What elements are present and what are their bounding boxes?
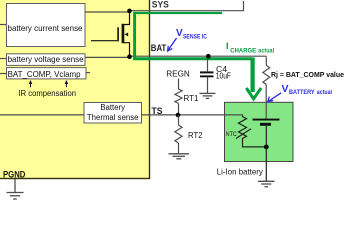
svg-text:RT1: RT1 xyxy=(184,93,199,103)
svg-text:Thermal sense: Thermal sense xyxy=(87,113,139,122)
thermistor NTC zigzag xyxy=(239,116,247,142)
ground RT2 xyxy=(169,154,190,159)
battery cell plate plus xyxy=(253,119,280,121)
transistor Q1 power FET channel bar xyxy=(122,24,125,43)
capacitor C4 plates xyxy=(200,71,214,73)
wire SYS stub up xyxy=(243,1,245,11)
wire source jog to BAT xyxy=(124,43,130,57)
arrow blue Vsense to BAT xyxy=(168,38,177,51)
svg-text:NTC: NTC xyxy=(226,131,237,138)
wire TS into NTC xyxy=(225,114,244,116)
wire stub pin BAT_COMP xyxy=(0,73,7,75)
svg-text:actual: actual xyxy=(317,89,332,96)
svg-text:CHARGE: CHARGE xyxy=(230,49,256,55)
arrow up 2 to BAT_COMP block xyxy=(65,80,69,87)
svg-text:battery current sense: battery current sense xyxy=(8,24,83,33)
junction dot BAT-source xyxy=(127,54,132,59)
svg-text:battery voltage sense: battery voltage sense xyxy=(8,55,84,64)
svg-text:IR compensation: IR compensation xyxy=(19,89,77,98)
wire TS node to RT2 xyxy=(178,115,180,125)
wire drain jog to SYS xyxy=(124,11,130,25)
junction dot SYS-drain xyxy=(127,9,132,14)
resistor Ri internal resistance xyxy=(263,65,270,84)
wire RT1 to TS node xyxy=(178,103,180,115)
transistor Q1 gate bar xyxy=(117,27,119,41)
ground battery xyxy=(258,181,275,186)
junction dot BAT-C4 xyxy=(206,54,211,59)
ground C4 xyxy=(200,93,216,98)
transistor Q1 body arrow xyxy=(125,32,129,36)
label Vsense annotation xyxy=(176,28,208,40)
junction dot battery minus xyxy=(264,145,269,150)
block battery current sense xyxy=(7,4,86,47)
svg-text:PGND: PGND xyxy=(3,169,26,179)
svg-text:10uF: 10uF xyxy=(216,72,231,81)
green current path polyline xyxy=(134,12,222,14)
svg-text:REGN: REGN xyxy=(166,69,190,79)
svg-text:V: V xyxy=(176,28,183,39)
wire BAT horizontal xyxy=(130,55,267,57)
wire box2 to source node xyxy=(85,56,130,58)
label Vbattery annotation xyxy=(282,83,333,96)
svg-text:V: V xyxy=(282,83,289,95)
wire SYS horizontal xyxy=(130,10,244,12)
svg-text:Battery: Battery xyxy=(100,103,125,112)
wire gate xyxy=(91,40,117,42)
wire Ri to battery plus xyxy=(265,84,267,118)
wire stub right of BAT_COMP block xyxy=(86,72,90,74)
wire C4 to ground xyxy=(207,77,209,93)
wire REGN to RT1 xyxy=(178,79,180,90)
svg-text:Rj = BAT_COMP value: Rj = BAT_COMP value xyxy=(271,70,344,79)
wire Ri top from BAT xyxy=(265,56,267,65)
wire stub pin battery voltage sense xyxy=(0,58,7,60)
arrow blue Vbattery to battery terminal xyxy=(268,93,282,102)
wire BAT to C4 xyxy=(207,56,209,71)
svg-text:Li-Ion battery: Li-Ion battery xyxy=(217,168,264,177)
block battery voltage sense xyxy=(7,54,86,66)
svg-text:SYS: SYS xyxy=(152,0,169,10)
junction dot TS node xyxy=(176,113,181,118)
wire battery minus down xyxy=(265,126,267,181)
svg-text:TS: TS xyxy=(152,106,163,116)
svg-text:actual: actual xyxy=(258,49,274,55)
block BAT_COMP Vclamp xyxy=(7,68,87,79)
wire box1 to drain node xyxy=(85,11,130,13)
svg-text:I: I xyxy=(226,41,229,51)
IC block (yellow charger IC body) xyxy=(0,0,150,179)
ground PGND xyxy=(7,179,24,199)
svg-text:BATTERY: BATTERY xyxy=(289,89,315,96)
wire RT2 to ground xyxy=(178,143,180,154)
battery pack block (green) xyxy=(225,102,294,161)
svg-text:RT2: RT2 xyxy=(188,130,203,140)
green block arrow ICHARGE into battery xyxy=(246,58,261,99)
block Battery Thermal sense xyxy=(84,103,142,124)
battery cell plate minus xyxy=(260,123,271,126)
wire TS horizontal left xyxy=(0,114,84,116)
svg-text:BAT: BAT xyxy=(151,43,167,53)
wire stub pin battery current sense xyxy=(0,24,7,26)
resistor RT1 xyxy=(175,89,182,103)
svg-text:BAT_COMP, Vclamp: BAT_COMP, Vclamp xyxy=(8,70,82,79)
wire NTC bottom to battery minus xyxy=(243,142,267,147)
svg-text:SENSE IC: SENSE IC xyxy=(183,34,208,40)
arrow up 1 to BAT_COMP block xyxy=(29,80,33,87)
wire TS horizontal right xyxy=(142,114,225,116)
thermistor NTC diagonal xyxy=(236,129,251,139)
label ICHARGE actual annotation xyxy=(226,41,274,55)
resistor RT2 xyxy=(175,125,182,143)
